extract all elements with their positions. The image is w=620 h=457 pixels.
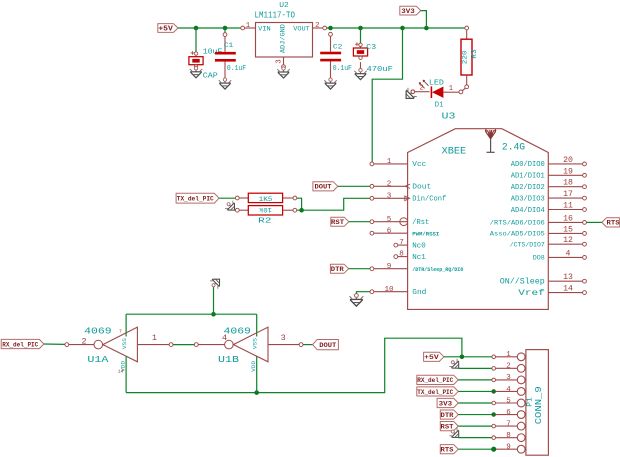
wire to C1	[224, 28, 226, 33]
svg-text:U1B: U1B	[218, 354, 239, 365]
svg-text:17: 17	[563, 190, 573, 199]
net flag DOUT	[313, 182, 338, 191]
U3 pin 18 AD2/DIO2	[511, 179, 587, 192]
svg-text:TX_del_PIC: TX_del_PIC	[177, 196, 214, 203]
svg-text:Asso/AD5/DIO5: Asso/AD5/DIO5	[490, 231, 545, 238]
U3 pin 16 /RTS/AD6/DIO6	[490, 214, 587, 226]
svg-text:DOUT: DOUT	[319, 342, 336, 349]
wire TX flag to R1	[219, 197, 235, 199]
U3 pin 5 inversion bubble	[400, 218, 408, 226]
supply flag 3V3	[400, 6, 421, 15]
wire 3V3 rail	[327, 27, 465, 29]
wire U1A VSS	[125, 314, 127, 336]
P1 pin 2	[492, 363, 525, 373]
svg-text:12: 12	[563, 236, 573, 245]
supply flag +5V	[158, 24, 178, 33]
svg-text:9: 9	[506, 444, 511, 452]
wire pin10 to ground	[356, 292, 370, 296]
ground	[349, 294, 363, 307]
wire to pin7	[458, 425, 492, 427]
svg-text:7: 7	[119, 329, 122, 335]
U3 pin 2 Dout	[370, 180, 431, 191]
svg-text:8: 8	[399, 251, 404, 259]
svg-text:5: 5	[387, 216, 392, 224]
net flag DTR	[330, 264, 348, 273]
U3 pin 17 AD3/DIO3	[511, 190, 587, 203]
net flag TX_del_PIC (conn)	[417, 387, 459, 396]
ground	[402, 86, 419, 103]
svg-text:DTR: DTR	[441, 412, 454, 419]
svg-text:2.4G: 2.4G	[502, 142, 525, 153]
svg-text:Dout: Dout	[412, 184, 431, 192]
junction U1B VDD	[254, 390, 259, 395]
svg-text:TX_del_PIC: TX_del_PIC	[417, 389, 453, 396]
svg-text:XBEE: XBEE	[442, 147, 467, 158]
ground	[224, 199, 239, 214]
svg-text:CAP: CAP	[203, 73, 219, 81]
svg-text:9: 9	[387, 263, 392, 271]
svg-text:AD4/DIO4: AD4/DIO4	[511, 207, 545, 215]
svg-text:R2: R2	[258, 217, 272, 225]
wire to pin5	[458, 402, 492, 404]
svg-text:470uF: 470uF	[367, 66, 393, 74]
U2 pin 1	[241, 26, 245, 30]
P1 pin 3	[492, 374, 525, 384]
svg-text:+5V: +5V	[158, 25, 173, 33]
svg-text:VSS: VSS	[252, 338, 258, 349]
wire U1A out to U1B in	[173, 344, 194, 346]
svg-text:ADJ/GND: ADJ/GND	[279, 24, 286, 53]
wire VSS rail	[126, 313, 257, 315]
U3 pin 7 Nc0	[394, 239, 426, 250]
svg-text:RTS: RTS	[441, 447, 454, 454]
wire +5V rail	[178, 27, 241, 29]
wire gnd to R2	[234, 209, 236, 211]
resistor R2	[235, 206, 296, 215]
svg-text:10k: 10k	[259, 206, 272, 213]
U3 pin 3 Din/Conf	[370, 192, 446, 203]
wire U1A VDD	[125, 356, 127, 393]
svg-text:220: 220	[462, 50, 469, 64]
wire supply stub	[213, 285, 215, 314]
svg-text:U1A: U1A	[87, 354, 108, 365]
svg-text:1: 1	[449, 85, 453, 93]
supply symbol	[208, 275, 223, 290]
svg-text:2: 2	[506, 363, 511, 371]
svg-text:3: 3	[281, 333, 286, 343]
wire LED to R3	[462, 88, 465, 90]
U3 pin 13 ON//Sleep	[500, 273, 587, 286]
svg-text:/CTS/DIO7: /CTS/DIO7	[510, 242, 545, 249]
U3 pin 20 AD0/DIO0	[511, 156, 587, 169]
wire 3V3 to XBEE Vcc	[372, 28, 402, 162]
IC U3 XBEE outline	[408, 129, 549, 310]
ground	[354, 69, 366, 80]
ground	[448, 427, 463, 442]
U3 pin 2 input marker	[405, 184, 410, 188]
svg-text:1: 1	[246, 22, 251, 30]
svg-text:VIN: VIN	[258, 26, 271, 33]
P1 pin 9	[492, 444, 525, 454]
svg-text:2: 2	[81, 336, 86, 346]
ground	[277, 67, 289, 78]
svg-text:4: 4	[506, 386, 511, 394]
wire 3V3 flag to rail	[421, 11, 427, 28]
svg-text:AD2/DIO2: AD2/DIO2	[511, 184, 545, 192]
svg-text:C3: C3	[366, 44, 376, 52]
svg-text:3V3: 3V3	[401, 8, 415, 16]
resistor R3	[461, 26, 472, 89]
wire DTR to pin9	[349, 268, 370, 270]
junction 3V3 flag tap	[424, 26, 429, 31]
svg-text:Nc0: Nc0	[412, 242, 426, 250]
capacitor CAP 10uF (polarized)	[189, 51, 203, 68]
svg-text:AD1/DIO1: AD1/DIO1	[511, 173, 545, 181]
junction R network	[299, 208, 304, 213]
svg-text:/DTR/Sleep_RQ/DI8: /DTR/Sleep_RQ/DI8	[412, 267, 463, 273]
U3 pin 9 /DTR/Sleep_RQ/DI8	[370, 263, 463, 273]
svg-text:U3: U3	[442, 112, 456, 122]
svg-text:4: 4	[566, 249, 571, 258]
svg-text:4069: 4069	[84, 326, 111, 337]
net flag RX_del_PIC	[1, 339, 44, 348]
svg-text:DO8: DO8	[533, 255, 545, 262]
svg-text:7: 7	[506, 420, 511, 428]
wire pin16 to RTS	[586, 221, 601, 223]
wire U1B out to DOUT	[303, 344, 313, 346]
svg-text:2: 2	[315, 22, 319, 30]
wire U1B VSS	[256, 314, 258, 336]
svg-text:1K5: 1K5	[259, 196, 273, 203]
U3 pin 12 /CTS/DIO7	[510, 236, 587, 248]
svg-text:Din/Conf: Din/Conf	[412, 196, 446, 204]
svg-text:2: 2	[387, 180, 392, 188]
ground	[324, 78, 336, 89]
P1 pin 8	[492, 432, 525, 442]
svg-text:3: 3	[387, 192, 392, 200]
svg-text:6: 6	[387, 227, 392, 235]
wire to C3	[360, 28, 362, 43]
U2 pin 2	[313, 27, 323, 29]
svg-text:ON//Sleep: ON//Sleep	[500, 278, 545, 287]
wire gnd to pin2	[459, 367, 492, 369]
U3 pin 6 PWM/RSSI	[370, 227, 439, 237]
U3 pin 1 Vcc	[370, 158, 426, 169]
svg-text:16: 16	[563, 214, 573, 223]
svg-text:RST: RST	[441, 423, 454, 430]
junction Vcc tap	[400, 26, 405, 31]
wire RX flag to U1A	[44, 343, 65, 345]
svg-text:19: 19	[563, 167, 573, 176]
svg-text:C2: C2	[333, 44, 343, 52]
svg-text:Gnd: Gnd	[412, 289, 426, 297]
U2 pin 3	[283, 57, 285, 65]
svg-text:U2: U2	[279, 2, 289, 10]
wire RST to pin5	[349, 221, 370, 223]
svg-text:PWM/RSSI: PWM/RSSI	[412, 231, 439, 238]
svg-text:3: 3	[276, 59, 284, 63]
wire to pin9	[458, 448, 492, 450]
svg-text:2: 2	[419, 85, 423, 93]
junction +5V feed	[460, 355, 465, 360]
net flag TX_del_PIC	[176, 193, 219, 203]
net flag RST	[331, 217, 349, 226]
junction CAP tap	[194, 26, 199, 31]
junction pin6	[492, 413, 496, 417]
junction pin9	[491, 447, 496, 452]
svg-text:Nc1: Nc1	[412, 254, 426, 262]
capacitor C1 0.1uF	[215, 33, 236, 80]
net flag DOUT (lower)	[313, 340, 339, 350]
svg-text:1: 1	[506, 351, 511, 359]
svg-text:15: 15	[563, 225, 573, 234]
junction pin4	[492, 389, 496, 393]
svg-text:8: 8	[506, 432, 511, 440]
U3 pin 11 AD4/DIO4	[511, 202, 587, 215]
svg-text:3V3: 3V3	[439, 400, 453, 408]
svg-text:3: 3	[506, 374, 511, 382]
junction C1 tap	[223, 26, 228, 31]
svg-text:18: 18	[563, 179, 573, 188]
U3 pin 14 Vref	[518, 285, 586, 298]
svg-text:VDD: VDD	[251, 361, 257, 372]
svg-text:VSS: VSS	[122, 338, 128, 349]
U3 pin 15 Asso/AD5/DIO5	[490, 225, 587, 237]
ground	[448, 357, 463, 372]
svg-text:AD3/DIO3: AD3/DIO3	[511, 195, 545, 203]
svg-text:/RTS/AD6/DIO6: /RTS/AD6/DIO6	[490, 220, 545, 227]
supply flag +5V (conn)	[424, 352, 444, 361]
capacitor C3 470uF (polarized)	[353, 42, 367, 70]
svg-text:RST: RST	[331, 219, 344, 226]
svg-text:1: 1	[387, 158, 392, 166]
U3 pin 3 input marker	[405, 196, 410, 201]
wire to CAP	[195, 28, 197, 52]
U3 pin 4 DO8	[533, 249, 587, 261]
svg-text:D1: D1	[435, 101, 444, 109]
U3 pin 10 Gnd	[370, 286, 426, 297]
wire +5V to pin1	[444, 356, 492, 358]
inverter U1B	[198, 327, 303, 362]
svg-text:6: 6	[506, 409, 511, 417]
U3 pin 5 /Rst	[370, 216, 429, 227]
net flag RX_del_PIC (conn)	[417, 375, 459, 384]
svg-text:DOUT: DOUT	[315, 184, 332, 191]
U3 pin 19 AD1/DIO1	[511, 167, 587, 180]
inverter U1A	[65, 327, 173, 362]
svg-text:0.1uF: 0.1uF	[333, 65, 352, 73]
svg-text:1: 1	[152, 333, 157, 343]
P1 pin 4	[492, 386, 525, 396]
svg-text:C1: C1	[224, 42, 234, 50]
wire gnd to pin8	[459, 437, 492, 439]
U3 pin 8 Nc1	[394, 251, 426, 262]
net flag RTS (pin16)	[602, 218, 620, 227]
P1 pin 6	[492, 409, 525, 419]
P1 pin 1	[492, 351, 525, 361]
svg-text:20: 20	[563, 156, 573, 165]
svg-text:5: 5	[506, 397, 511, 405]
ground	[190, 67, 202, 78]
wire R1 down to junction	[297, 198, 302, 210]
svg-text:11: 11	[563, 202, 573, 211]
svg-text:VOUT: VOUT	[293, 26, 310, 33]
voltage regulator U2 box	[256, 23, 313, 58]
P1 pin 7	[492, 420, 525, 430]
svg-text:RX_del_PIC: RX_del_PIC	[417, 377, 453, 384]
wire R network to pin3	[297, 198, 370, 210]
net flag DTR (conn)	[440, 410, 458, 419]
LED D1	[411, 80, 463, 98]
svg-text:Vcc: Vcc	[412, 161, 426, 169]
net flag RST (conn)	[440, 422, 458, 431]
svg-text:13: 13	[563, 273, 573, 282]
svg-text:7: 7	[399, 239, 404, 247]
svg-text:CONN_9: CONN_9	[534, 386, 544, 424]
wire to pin4	[458, 390, 492, 392]
svg-text:RX_del_PIC: RX_del_PIC	[2, 341, 38, 348]
capacitor C2 0.1uF	[320, 32, 341, 79]
svg-text:LED: LED	[429, 79, 445, 87]
svg-text:14: 14	[118, 369, 124, 375]
svg-text:10: 10	[384, 286, 394, 294]
svg-text:14: 14	[563, 285, 573, 294]
svg-text:+5V: +5V	[424, 354, 440, 362]
supply flag 3V3 (conn)	[437, 398, 458, 407]
svg-text:R3: R3	[471, 49, 479, 59]
connector P1 CONN_9 body	[526, 350, 549, 456]
ground	[219, 78, 231, 89]
wire U1B VDD stub	[256, 356, 258, 393]
wire DOUT to pin2	[338, 185, 370, 187]
svg-text:/Rst: /Rst	[412, 219, 429, 227]
svg-text:4069: 4069	[224, 326, 251, 337]
P1 pin 5	[492, 397, 525, 407]
svg-text:RTS: RTS	[607, 220, 620, 227]
svg-text:Vref: Vref	[518, 288, 545, 298]
svg-text:DTR: DTR	[331, 266, 344, 273]
svg-text:LM1117-TO: LM1117-TO	[255, 10, 296, 20]
resistor R1 1K5	[235, 193, 296, 202]
junction C3 tap	[358, 26, 363, 31]
svg-text:AD0/DIO0: AD0/DIO0	[511, 161, 545, 169]
junction supply tap	[211, 312, 216, 317]
wire VDD rail to +5V	[126, 338, 462, 392]
svg-text:0.1uF: 0.1uF	[227, 65, 246, 73]
node between gates	[194, 343, 198, 347]
net flag RTS (conn)	[440, 445, 458, 454]
antenna symbol	[485, 129, 495, 152]
wire to pin6	[458, 414, 492, 416]
wire to pin3	[458, 379, 492, 381]
junction C2 tap	[328, 26, 333, 31]
